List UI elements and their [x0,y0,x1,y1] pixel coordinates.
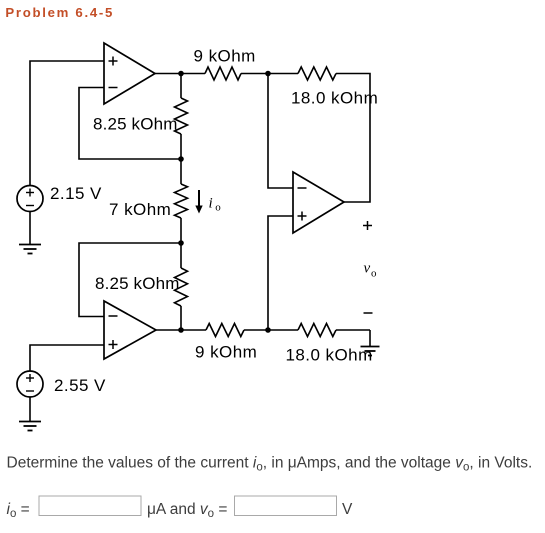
svg-text:i: i [209,196,213,212]
svg-text:v: v [364,261,371,277]
svg-text:io =: io = [7,501,30,520]
svg-text:μA and vo =: μA and vo = [147,501,227,520]
resistor R2 8.25 kOhm (top, vertical) [180,74,182,99]
label v_o + terminal [363,221,372,230]
svg-text:o: o [371,268,377,280]
svg-text:9 kOhm: 9 kOhm [195,343,257,362]
wire: V1 - to ground [29,212,31,245]
wire: U1 inverting input feedback loop to node A [79,88,181,160]
node A: R2 / feedback / R4 junction [178,156,184,162]
wire: V1 + to op-amp U1 noninverting input [30,61,104,186]
svg-text:7 kOhm: 7 kOhm [109,200,171,219]
resistor R7 18.0 kOhm (bottom, horizontal) [268,329,298,331]
svg-text:18.0 kOhm: 18.0 kOhm [291,89,378,108]
node: R1 / R3 / U3 inverting branch junction [265,71,271,77]
resistor R4 7 kOhm (vertical) [180,159,182,184]
wire: U3 noninverting input down to bottom row [268,216,293,330]
svg-text:Problem 6.4-5: Problem 6.4-5 [5,5,114,20]
wire: U2 output [156,329,206,331]
voltage source V2 2.55 V [17,371,43,397]
svg-text:9 kOhm: 9 kOhm [194,47,256,66]
wire: U1 output [155,73,205,75]
label v_o [364,261,378,280]
resistor R3 18.0 kOhm (top, horizontal) [268,73,298,75]
voltage source V1 2.15 V [17,186,43,212]
svg-text:2.55 V: 2.55 V [54,376,106,395]
ground below V1 [19,245,41,254]
label v_o - terminal [364,312,373,314]
question text [7,455,533,474]
wire: V2 - to ground [29,397,31,421]
node: R6 / R7 / U3 noninverting branch junction [265,327,271,333]
svg-text:o: o [215,202,221,214]
svg-text:V: V [342,501,353,518]
node B: R4 / R5 / U2 feedback junction [178,240,184,246]
ground below V2 [19,422,41,431]
input box for v_o [235,496,337,516]
wire: R7 right end to ground [369,330,371,346]
node: U1 output / R2 junction [178,71,184,77]
resistor R5 8.25 kOhm (bottom, vertical) [180,243,182,268]
label i_o [209,196,222,214]
wire: U2 noninverting input to V2 [30,345,104,371]
svg-text:8.25 kOhm: 8.25 kOhm [93,115,178,134]
svg-text:2.15 V: 2.15 V [50,184,102,203]
svg-text:8.25 kOhm: 8.25 kOhm [95,274,180,293]
op-amp U3 (right) [293,172,344,233]
op-amp U1 (top) [104,43,155,104]
current arrow i_o [195,190,202,214]
op-amp U2 (bottom) [104,301,156,359]
wire: junction down to U3 inverting input [268,74,293,189]
svg-text:Determine the values of the cu: Determine the values of the current io, … [7,455,533,474]
svg-text:18.0 kOhm: 18.0 kOhm [286,346,373,365]
input box for i_o [39,496,141,516]
wire: node B to U2 inverting input feedback loop [79,243,181,317]
resistor R6 9 kOhm (bottom, horizontal) [206,324,244,337]
wire: R3 right end down to U3 output [336,74,370,203]
ground at output right [361,347,380,356]
node: U2 output / R5 junction [178,327,184,333]
resistor R1 9 kOhm (top, horizontal) [205,67,241,80]
answer row [7,496,354,520]
